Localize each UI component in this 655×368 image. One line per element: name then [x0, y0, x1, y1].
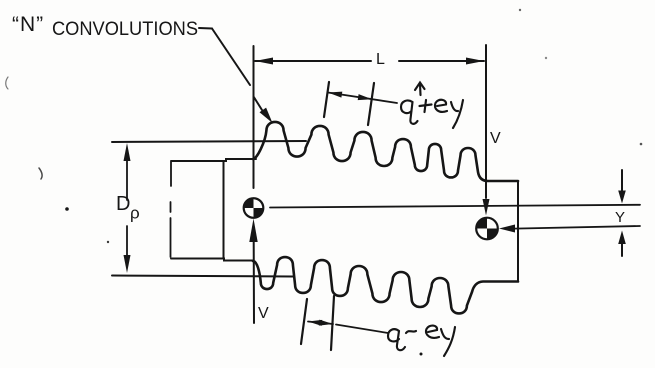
left arrowhead into right symbol [499, 225, 515, 233]
Dp text [116, 193, 140, 223]
leader arrowhead [260, 108, 273, 123]
center line [270, 205, 640, 208]
right centroid symbol [476, 218, 498, 240]
leader dash after label [199, 27, 212, 30]
handwritten e (bottom) [426, 326, 439, 338]
q+ey dimension tick 1 [324, 82, 329, 117]
V load line bottom [253, 242, 255, 323]
lateral offset line to right symbol [514, 226, 640, 229]
left extension line [253, 46, 255, 188]
speck curve far left [6, 77, 8, 89]
left fitting rectangle right side [223, 161, 225, 258]
q-ey dimension tick 1 [301, 299, 307, 344]
svg-text:D: D [116, 193, 130, 215]
svg-text:Y: Y [615, 209, 625, 226]
handwritten q (top) [401, 100, 418, 123]
left fitting rectangle bottom line [171, 259, 253, 261]
q+ey right arrowhead [358, 94, 372, 100]
handwritten q (bottom) [388, 329, 405, 350]
svg-text:“N”: “N” [12, 13, 44, 36]
right extension line / V load line [485, 45, 487, 198]
svg-text:V: V [490, 130, 501, 147]
q-ey dimension line [308, 322, 333, 325]
q-ey right arrowhead [319, 320, 333, 326]
Dp down arrowhead [124, 255, 131, 273]
q+ey dimension line [328, 93, 397, 104]
speck dots top right [519, 9, 521, 11]
left fitting hidden left side (dashed) [170, 162, 173, 257]
leader line to first convolution [212, 29, 262, 111]
left centroid symbol [244, 198, 264, 218]
q+ey left arrowhead [328, 92, 342, 98]
handwritten + (top) [420, 100, 432, 112]
q-ey dimension tick 2 [331, 296, 334, 350]
V down arrowhead (right) [483, 199, 490, 216]
Y dimension top arrow [621, 170, 623, 191]
svg-text:CONVOLUTIONS: CONVOLUTIONS [52, 19, 198, 40]
bellows top profile [253, 122, 518, 181]
right plate edge [517, 181, 519, 282]
left fitting rectangle top line [171, 159, 256, 161]
handwritten tilde (bottom) [406, 331, 416, 333]
bottom flange line [112, 276, 293, 277]
speck dot left [65, 207, 69, 211]
top flange line [112, 141, 306, 142]
speck dot under Dp [107, 241, 109, 243]
Dp dimension line [126, 160, 128, 256]
q-ey left arrowhead [308, 320, 322, 326]
svg-text:L: L [376, 51, 385, 68]
speck dot right [640, 143, 643, 146]
bellows bottom profile [253, 257, 518, 313]
V up arrowhead (left) [249, 219, 257, 243]
Dp up arrowhead [124, 143, 131, 161]
q+ey dimension tick 2 [368, 83, 374, 125]
handwritten e (top) [435, 100, 447, 112]
q-ey leader line [336, 325, 388, 334]
speck dot bottom middle [420, 353, 423, 356]
L dimension line [255, 60, 484, 62]
handwritten caret above q+ey [415, 83, 425, 96]
L right arrowhead [466, 58, 484, 65]
svg-text:ρ: ρ [130, 204, 140, 223]
svg-text:V: V [258, 305, 269, 322]
L left arrowhead [255, 58, 273, 65]
Y dimension bottom arrow [621, 244, 623, 256]
handwritten y (bottom) [441, 327, 455, 356]
label "N" CONVOLUTIONS [12, 13, 198, 40]
handwritten y (top) [451, 100, 463, 128]
speck comma top left [39, 168, 42, 179]
